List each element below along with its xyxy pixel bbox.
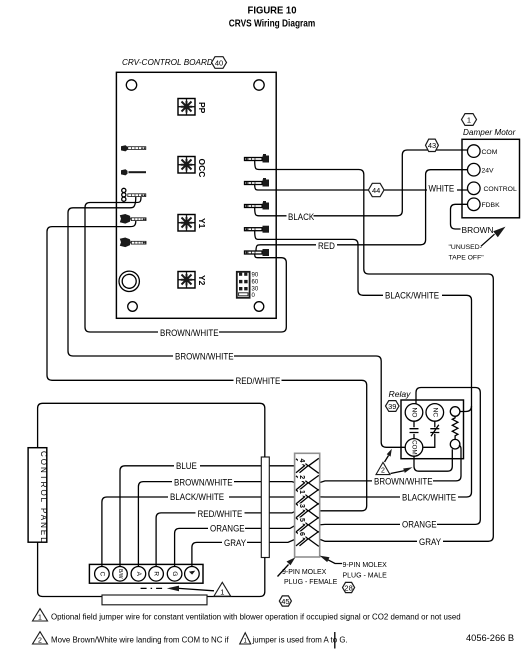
svg-text:43: 43 [428, 141, 436, 150]
note triangle 1 [33, 609, 48, 621]
svg-text:1: 1 [467, 115, 471, 124]
control board U40 outline [116, 72, 276, 318]
coil terminal bottom [450, 439, 460, 449]
arrow to jumper [391, 471, 405, 474]
molex pin 4 chevrons [296, 459, 308, 473]
label WHITE [427, 184, 457, 193]
svg-text:1: 1 [220, 587, 224, 596]
svg-text:BLACK/WHITE: BLACK/WHITE [385, 290, 439, 301]
terminal strip box [89, 564, 203, 583]
mounting hole top-right [254, 80, 264, 90]
jumper COM to coil [414, 449, 452, 471]
label BLUE [174, 461, 200, 470]
left pin L1 [121, 145, 146, 151]
right pin R5 [245, 249, 270, 256]
right pin R4 [245, 226, 270, 233]
optional jumper dash-dot leader [141, 587, 163, 589]
svg-text:"UNUSED-: "UNUSED- [449, 244, 482, 251]
svg-text:1: 1 [298, 490, 305, 494]
label BROWN/WHITE left [172, 477, 234, 486]
terminal CONTROL [468, 182, 481, 195]
svg-text:39: 39 [388, 402, 396, 411]
svg-text:60: 60 [252, 280, 259, 286]
wire board L3 to brown/white row1 to board R5 [85, 197, 286, 332]
svg-text:6: 6 [298, 532, 305, 536]
svg-text:NO: NO [411, 407, 418, 417]
svg-text:B/W: B/W [117, 569, 123, 579]
relay contact COM [405, 439, 423, 457]
svg-text:PLUG - FEMALE: PLUG - FEMALE [284, 579, 338, 586]
relay K39 box [401, 400, 464, 459]
label BROWN/WHITE row2 [173, 352, 234, 361]
svg-text:30: 30 [252, 286, 259, 292]
svg-text:BLACK/WHITE: BLACK/WHITE [170, 491, 224, 502]
svg-text:3: 3 [298, 504, 305, 508]
svg-text:BLACK: BLACK [288, 211, 314, 222]
wire BROWN/WHITE left [138, 482, 296, 567]
molex pin 5 chevrons [296, 518, 308, 532]
svg-text:PLUG - MALE: PLUG - MALE [343, 573, 388, 580]
arrow brown taped off [481, 234, 495, 246]
wire board L3b to relay COM [68, 197, 405, 447]
terminal B/W [113, 567, 128, 582]
svg-text:44: 44 [372, 186, 380, 195]
arrow to COM wire [385, 456, 389, 463]
svg-text:5: 5 [298, 518, 305, 522]
svg-text:45: 45 [281, 597, 289, 606]
svg-text:C: C [98, 571, 105, 576]
callout hexagon 39 [386, 401, 400, 412]
wire board R3 BLACK to damper COM [255, 150, 468, 216]
molex pin 1 chevrons [296, 490, 308, 504]
label RED/WHITE [234, 376, 282, 385]
LED Y1 [178, 215, 195, 232]
molex pin 6 chevrons [296, 532, 308, 546]
svg-text:jumper is used from A to G.: jumper is used from A to G. [252, 636, 348, 645]
wire relay NO to ORANGE molex pin5 [319, 388, 481, 525]
relay contact NO [405, 404, 423, 422]
svg-text:PP: PP [197, 102, 207, 114]
svg-text:RED: RED [318, 240, 335, 251]
warning triangle 2 [376, 462, 390, 474]
svg-text:COM: COM [411, 440, 418, 454]
terminal 24V [468, 163, 481, 176]
svg-text:NC: NC [431, 408, 438, 418]
svg-text:24V: 24V [482, 168, 495, 175]
mounting hole bottom-right [254, 302, 264, 312]
wire FDBK to BROWN stub [451, 204, 468, 229]
svg-text:BROWN/WHITE: BROWN/WHITE [174, 477, 233, 488]
stray fold mark [334, 632, 336, 649]
svg-text:2: 2 [298, 475, 305, 479]
label RED/WHITE left [196, 509, 245, 518]
molex pin 3 chevrons [296, 504, 308, 518]
svg-text:A: A [135, 572, 142, 577]
svg-text:1: 1 [38, 615, 42, 622]
svg-text:Move Brown/White wire landing: Move Brown/White wire landing from COM t… [51, 636, 229, 645]
callout hexagon 1 [462, 114, 477, 126]
svg-text:BROWN/WHITE: BROWN/WHITE [160, 327, 219, 338]
label ORANGE left [208, 523, 245, 532]
right pin R1 [245, 154, 270, 163]
molex pin 2 chevrons [296, 476, 308, 490]
svg-text:ORANGE: ORANGE [402, 519, 437, 530]
svg-text:G: G [171, 571, 178, 576]
left pin L3 [122, 188, 146, 201]
wire board R5 RED to damper 24V [256, 170, 467, 251]
svg-text:FIGURE 10: FIGURE 10 [248, 5, 297, 16]
wire board R4 BLACK/WHITE to relay coil and molex pin1 [255, 231, 472, 497]
terminal COM [468, 145, 481, 158]
hexagon 45 [279, 596, 291, 606]
label BROWN/WHITE row1 [158, 328, 219, 337]
svg-text:GRAY: GRAY [224, 537, 246, 548]
svg-text:Optional field jumper wire for: Optional field jumper wire for constant … [51, 613, 461, 622]
wire board R2 WHITE to damper CONTROL [255, 185, 468, 190]
svg-text:BROWN/WHITE: BROWN/WHITE [175, 351, 234, 362]
control panel loop wire bottom [38, 542, 265, 596]
wire GRAY left [192, 539, 296, 567]
relay contact NC [426, 404, 444, 422]
label BLACK/WHITE left [168, 492, 229, 501]
jumper block 90/60/30/0 [237, 272, 250, 298]
svg-text:4056-266 B: 4056-266 B [466, 633, 514, 643]
svg-text:Damper Motor: Damper Motor [463, 128, 516, 137]
svg-text:Relay: Relay [389, 389, 412, 399]
hexagon 43 [426, 139, 439, 151]
svg-text:4: 4 [298, 459, 305, 463]
wire BROWN/WHITE molex pin2 to relay coil bottom [319, 445, 461, 483]
control panel box [28, 448, 47, 543]
terminal G [167, 567, 182, 582]
terminal C [95, 567, 110, 582]
left pin L5 [120, 238, 147, 248]
left pin L4 [120, 214, 147, 224]
hexagon 44 [368, 183, 384, 196]
NC contact symbol [423, 421, 439, 447]
svg-text:Y1: Y1 [197, 218, 207, 229]
svg-text:CONTROL PANEL: CONTROL PANEL [39, 451, 48, 544]
label BLACK/WHITE bottom [400, 493, 458, 502]
right pin R3 [245, 201, 270, 210]
wires strip to molex: BLUE [120, 466, 296, 567]
svg-text:COM: COM [482, 149, 498, 156]
note inline triangle 1 [240, 633, 251, 644]
svg-text:CONTROL: CONTROL [484, 186, 517, 193]
label BLACK/WHITE top [383, 291, 442, 300]
label GRAY left [222, 538, 247, 547]
svg-text:28: 28 [344, 583, 352, 592]
svg-text:RED/WHITE: RED/WHITE [198, 508, 243, 519]
wire ORANGE left [175, 525, 296, 567]
arrow female plug leader [278, 565, 289, 577]
svg-text:FDBK: FDBK [482, 202, 501, 209]
svg-text:RED/WHITE: RED/WHITE [236, 375, 281, 386]
LED PP [178, 99, 195, 116]
hexagon 28 [343, 582, 355, 592]
svg-text:CRV-CONTROL BOARD: CRV-CONTROL BOARD [122, 58, 213, 67]
wire spur to relay coil top [460, 406, 472, 412]
coil resistor zigzag [452, 416, 458, 439]
LED OCC [178, 157, 195, 174]
svg-text:9-PIN MOLEX: 9-PIN MOLEX [343, 562, 388, 569]
svg-text:TAPE OFF": TAPE OFF" [449, 255, 485, 262]
control panel loop wire top [38, 403, 265, 457]
wire BLACK/WHITE left [102, 497, 296, 566]
big hole (speaker) bottom-left [119, 271, 139, 291]
warning triangle 1 at strip [214, 582, 231, 596]
svg-text:40: 40 [215, 58, 223, 67]
label BROWN/WHITE right [372, 476, 433, 486]
left pin L2 [121, 169, 146, 175]
svg-text:2: 2 [381, 468, 385, 475]
right pin R2 [245, 178, 270, 187]
label GRAY right [417, 537, 443, 546]
label BLACK [287, 212, 314, 221]
svg-text:R: R [153, 571, 160, 576]
svg-text:OCC: OCC [197, 159, 207, 178]
svg-text:BROWN/WHITE: BROWN/WHITE [374, 476, 433, 487]
svg-text:2: 2 [38, 638, 42, 645]
wire board L4 red/white to molex pin3 [47, 221, 367, 511]
terminal A [131, 567, 146, 582]
wire board R1 to GRAY molex pin6 [255, 161, 494, 542]
terminal R [149, 567, 164, 582]
NO contact symbol [410, 421, 419, 438]
crossover hop box [261, 457, 269, 558]
svg-text:WHITE: WHITE [429, 183, 455, 194]
svg-text:BLUE: BLUE [176, 460, 197, 471]
label ORANGE right [400, 520, 437, 529]
svg-text:BLACK/WHITE: BLACK/WHITE [402, 492, 456, 503]
svg-text:90: 90 [252, 273, 259, 279]
molex connector body [295, 453, 320, 557]
note triangle 2 [33, 632, 48, 644]
svg-text:ORANGE: ORANGE [210, 523, 245, 534]
coil terminal top [450, 407, 460, 417]
cover plate [102, 595, 207, 605]
svg-text:Y2: Y2 [197, 275, 207, 286]
arrow male plug leader [328, 560, 343, 564]
mounting hole top-left [126, 80, 136, 90]
damper motor M1 box [462, 139, 520, 218]
LED Y2 [178, 272, 195, 289]
mounting hole bottom-left [128, 302, 138, 312]
svg-text:9-PIN MOLEX: 9-PIN MOLEX [282, 569, 327, 576]
svg-text:GRAY: GRAY [419, 536, 441, 547]
svg-text:CRVS Wiring Diagram: CRVS Wiring Diagram [229, 17, 316, 29]
wire RED/WHITE left [156, 511, 296, 567]
terminal FDBK [468, 198, 481, 211]
svg-text:BROWN: BROWN [462, 225, 494, 235]
callout hexagon 40 [212, 57, 227, 69]
terminal flag [185, 567, 200, 582]
label RED [316, 242, 337, 251]
